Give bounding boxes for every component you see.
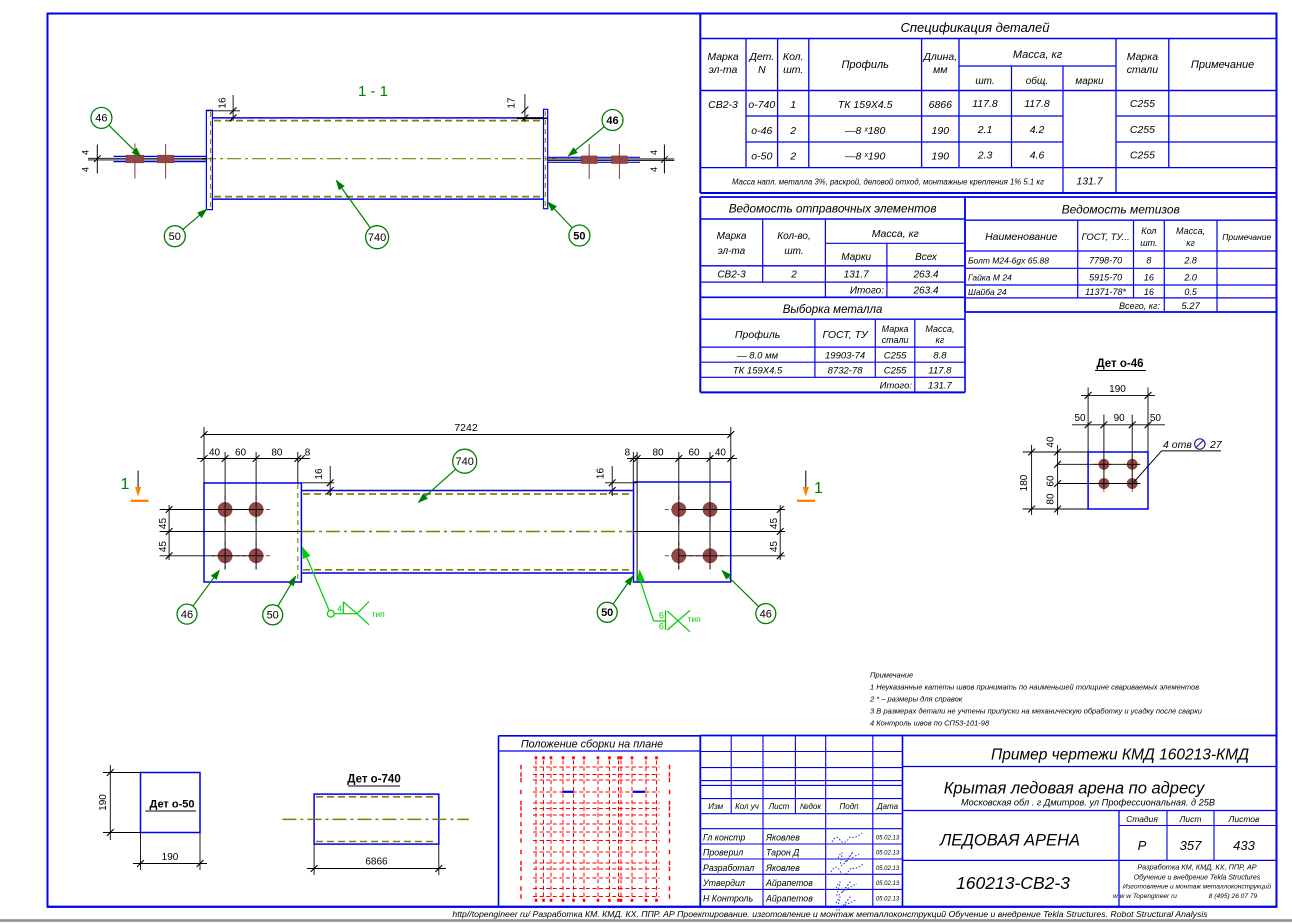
svg-text:ЛЕДОВАЯ АРЕНА: ЛЕДОВАЯ АРЕНА [939,832,1080,850]
plan: right dims 45 45 [779,505,781,560]
svg-text:Итого:: Итого: [880,381,913,392]
balloon 46 right (section) [602,110,623,131]
plan: tube outline [301,490,633,492]
svg-text:90: 90 [1114,413,1126,424]
section: left end plate o-50 [206,110,212,209]
plan: tube hidden wall lines [303,493,632,495]
svg-text:Разработка КМ, КМД, КХ, ППР, А: Разработка КМ, КМД, КХ, ППР, АР [1137,863,1256,872]
svg-text:2: 2 [790,270,797,281]
svg-text:131.7: 131.7 [928,381,952,392]
svg-text:Гл констр: Гл констр [703,833,745,843]
svg-text:Профиль: Профиль [735,329,780,341]
detail o-740 tube outline [314,794,439,844]
svg-text:117.8: 117.8 [1024,98,1050,110]
svg-text:60: 60 [688,448,700,459]
svg-text:СВ2-3: СВ2-3 [717,270,746,281]
section: centerline [202,158,556,160]
svg-text:Р: Р [1138,838,1147,853]
balloon 50 right (section) [569,225,590,246]
svg-text:1: 1 [814,480,823,497]
svg-text:Шайба 24: Шайба 24 [968,287,1007,297]
svg-text:117.8: 117.8 [972,98,998,110]
ledovaya arena cell [903,859,1277,861]
svg-text:27: 27 [1209,439,1223,451]
red grid outer dotted columns [520,765,522,769]
svg-text:40: 40 [209,448,221,459]
plan: left dims 45 45 [168,505,170,560]
detail o-50 dim 190 vertical [103,772,141,774]
svg-text:40: 40 [1045,436,1056,448]
detail o-46 dims 50 90 50 [1103,415,1105,489]
svg-text:8: 8 [624,448,630,459]
svg-text:5.27: 5.27 [1181,301,1200,312]
svg-text:стали: стали [882,335,909,345]
svg-text:2: 2 [789,151,796,163]
svg-text:160213-СВ2-3: 160213-СВ2-3 [956,873,1070,893]
svg-text:Листов: Листов [1228,814,1261,824]
svg-text:тип: тип [372,609,386,619]
plan: left sub dims 40 60 80 8 [197,458,310,460]
plan: left end plate hidden edge [297,484,299,581]
svg-text:131.7: 131.7 [1076,176,1103,188]
detail o-740 hidden wall lines [316,796,437,798]
svg-text:16: 16 [1144,287,1154,297]
svg-text:Дет о-740: Дет о-740 [347,774,400,786]
svg-text:190: 190 [98,794,109,811]
svg-text:4: 4 [337,604,342,614]
balloon 50 right (plan) [597,602,617,622]
section: left bolts (side view) [126,155,143,162]
svg-text:Всех: Всех [915,252,938,263]
svg-text:46: 46 [181,609,193,621]
svg-text:шт.: шт. [1140,238,1157,248]
section: left weld size 4 marks [96,145,98,174]
svg-text:Разработал: Разработал [703,863,754,873]
svg-text:16: 16 [218,97,229,109]
svg-text:Обучение и внедрение Tekla St: Обучение и внедрение Tekla Structures [1134,873,1261,881]
svg-text:Лист: Лист [768,802,790,811]
svg-text:общ.: общ. [1026,75,1048,87]
svg-text:Марка: Марка [717,231,747,242]
balloon 740 (section) [366,226,389,249]
svg-text:4 отв: 4 отв [1163,439,1192,451]
detail o-46 plate outline [1088,452,1148,509]
detail o-46 dims 40 60 80 [1057,445,1059,515]
section: left splice bar blue plates [114,155,207,157]
svg-text:190: 190 [932,151,950,163]
svg-text:Н Контроль: Н Контроль [703,894,753,904]
svg-text:0.5: 0.5 [1184,287,1198,297]
svg-text:50: 50 [267,610,279,622]
svg-text:6866: 6866 [365,857,388,868]
svg-text:357: 357 [1180,838,1202,853]
svg-text:Дет о-46: Дет о-46 [1096,358,1143,370]
svg-text:16: 16 [314,468,325,480]
svg-text:05.02.13: 05.02.13 [876,881,900,887]
svg-text:Масса напл. металла 3%, раскро: Масса напл. металла 3%, раскрой, деловой… [732,178,1044,187]
svg-text:1 Неуказанные катеты швов при: 1 Неуказанные катеты швов принимать по н… [870,683,1199,692]
svg-text:СВ2-3: СВ2-3 [708,99,738,111]
table: Vyborka metalla [699,297,701,392]
svg-text:2: 2 [789,125,796,137]
svg-text:263.4: 263.4 [912,270,938,281]
svg-text:45: 45 [158,541,169,553]
svg-text:45: 45 [769,541,780,553]
plan: tube centerline [301,531,634,533]
bottom gray strip [0,919,1292,922]
svg-text:2.3: 2.3 [977,150,993,162]
svg-text:Марка: Марка [707,51,739,63]
svg-text:8 (495) 26 07 79: 8 (495) 26 07 79 [1209,893,1258,900]
svg-text:Дет.: Дет. [748,51,774,63]
svg-text:3 В размерах детали не учтены: 3 В размерах детали не учтены припуски н… [870,707,1203,716]
svg-text:ГОСТ, ТУ...: ГОСТ, ТУ... [1082,232,1130,243]
svg-text:Тарон Д: Тарон Д [766,848,799,858]
svg-text:5915-70: 5915-70 [1089,273,1122,283]
svg-text:Марка: Марка [1127,51,1159,63]
svg-text:ТК 159Х4.5: ТК 159Х4.5 [838,99,893,111]
plan: right bolt grid lines [678,452,680,569]
svg-text:С255: С255 [1130,150,1155,162]
svg-text:05.02.13: 05.02.13 [876,866,900,872]
svg-text:о-740: о-740 [748,99,775,111]
section: dim 17 right plate thickness [517,117,548,119]
detail o-46 left extension lines [1023,451,1089,453]
section: dim 16 left plate thickness [206,110,240,112]
svg-text:05.02.13: 05.02.13 [876,851,900,857]
svg-text:кг: кг [1186,238,1195,248]
svg-text:4: 4 [649,150,659,155]
svg-text:190: 190 [932,125,950,137]
svg-text:—8 ˣ190: —8 ˣ190 [844,151,885,163]
svg-text:40: 40 [715,448,727,459]
title block outer lines [700,735,1276,737]
plan: right sub dims 8 80 60 40 [627,458,737,460]
detail o-46 dim 180 [1031,445,1033,515]
plan: section marker 1 right [805,471,807,493]
svg-text:05.02.13: 05.02.13 [876,836,900,842]
polozhenie sborki box [499,735,701,737]
plan: right end plate edge line [636,452,638,582]
svg-text:80: 80 [652,448,664,459]
svg-text:60: 60 [235,448,247,459]
plan: section marker 1 left [137,471,139,493]
svg-text:Наименование: Наименование [985,231,1058,243]
svg-text:ТК 159Х4.5: ТК 159Х4.5 [733,366,783,377]
svg-text:2.8: 2.8 [1183,256,1197,266]
section: right splice bar blue plates [548,156,641,158]
table: Spetsifikatsiya detaley [699,14,701,193]
svg-text:Положение сборки на плане: Положение сборки на плане [521,739,663,751]
balloon 46 left (plan) [177,604,197,624]
svg-text:С255: С255 [884,351,907,362]
svg-text:http//topengineer ru/ Разрабо: http//topengineer ru/ Разработка КМ. КМД… [452,909,1208,919]
section: tube hidden wall lines [214,120,543,122]
svg-text:Стадия: Стадия [1126,814,1158,824]
stadiya list listov header [1118,811,1120,861]
svg-text:Айрапетов: Айрапетов [765,878,813,888]
svg-text:С255: С255 [1130,98,1155,110]
object name cell [903,810,1277,812]
svg-text:Ведомость отправочных элементо: Ведомость отправочных элементов [729,202,937,216]
svg-text:Масса, кг: Масса, кг [872,228,919,240]
svg-text:16: 16 [1144,273,1154,283]
svg-text:50: 50 [169,231,181,243]
section: right splice bar black lines [548,158,675,160]
svg-text:50: 50 [573,230,585,242]
svg-text:шт.: шт. [784,246,803,257]
section: right bolts (side view) [581,156,597,163]
table: Vedomost metizov [965,196,1277,198]
svg-text:4.6: 4.6 [1030,150,1045,162]
plan: dim 16 right tube offset [605,482,637,484]
svg-text:4: 4 [649,167,659,172]
svg-text:8732-78: 8732-78 [828,366,864,377]
svg-text:кг: кг [936,335,945,345]
signatures scribbles [832,833,862,842]
svg-text:19903-74: 19903-74 [825,351,865,362]
svg-text:117.8: 117.8 [928,366,952,377]
svg-text:Кол уч: Кол уч [735,802,759,811]
weld symbol 4 tip (left) [327,610,334,617]
svg-text:50: 50 [601,607,613,619]
svg-text:2 * – размеры для справок: 2 * – размеры для справок [869,695,963,704]
plan: right flange plate o-46 [634,482,731,582]
svg-text:263.4: 263.4 [912,286,938,297]
red site grid [535,761,537,899]
svg-text:46: 46 [95,113,107,125]
svg-text:Айрапетов: Айрапетов [765,894,813,904]
svg-text:Подп: Подп [839,802,859,811]
svg-text:2.1: 2.1 [977,124,993,136]
svg-text:Масса, кг: Масса, кг [1013,49,1063,61]
balloon 46 left (section) [91,107,112,128]
svg-text:w w w Topengineer ru: w w w Topengineer ru [1113,893,1177,900]
svg-text:1: 1 [790,99,796,111]
section: right end plate o-50 [544,109,548,208]
svg-text:17: 17 [507,97,518,109]
svg-text:Яковлев: Яковлев [765,833,800,843]
svg-text:2.0: 2.0 [1183,273,1197,283]
svg-text:4 Контроль швов по СП53-101-9: 4 Контроль швов по СП53-101-98 [870,719,990,728]
svg-text:Дет о-50: Дет о-50 [149,799,194,811]
section: tube body o-740 [213,117,544,119]
svg-text:46: 46 [606,115,618,127]
balloon 46 right (plan) [756,604,776,624]
svg-text:46: 46 [760,608,772,620]
svg-text:190: 190 [1109,384,1126,395]
detail o-740 dim 6866 [313,844,315,875]
company info cell [1118,860,1120,906]
plan: overall dim 7242 [203,427,205,483]
svg-text:№док: №док [800,802,823,811]
svg-text:шт.: шт. [783,64,803,76]
svg-text:4.2: 4.2 [1030,124,1045,136]
svg-text:8: 8 [305,448,311,459]
svg-text:80: 80 [1045,493,1056,505]
svg-text:марки: марки [1075,76,1104,87]
svg-text:740: 740 [456,456,474,468]
svg-text:11371-78*: 11371-78* [1085,287,1126,297]
svg-text:Всего, кг:: Всего, кг: [1119,301,1161,311]
svg-text:о-46: о-46 [751,125,772,137]
svg-text:05.02.13: 05.02.13 [876,897,900,903]
blue segments in grid [563,791,574,793]
plan: bolts left plate [224,496,226,524]
svg-text:Болт М24-6gх 65.88: Болт М24-6gх 65.88 [968,256,1049,266]
plan: bolts right plate [678,496,680,524]
table: Vedomost otpravochnykh elementov [700,196,965,198]
detail o-46 bolts [1103,455,1105,474]
project name cell [903,766,1277,768]
svg-text:Масса,: Масса, [1176,226,1205,236]
detail o-46 dim 190 [1087,388,1089,453]
svg-text:Дата: Дата [876,802,899,811]
frame bottom edge [48,906,1277,908]
svg-text:Московская обл . г Дмитров. у: Московская обл . г Дмитров. ул Профессио… [961,798,1215,808]
svg-text:Кол.: Кол. [783,51,804,63]
svg-text:Примечание: Примечание [1191,59,1254,71]
svg-text:6: 6 [659,611,664,621]
svg-text:45: 45 [769,518,780,530]
svg-text:С255: С255 [884,366,907,377]
svg-text:Масса,: Масса, [925,324,954,334]
svg-text:50: 50 [1074,413,1086,424]
svg-text:мм: мм [933,64,947,76]
svg-text:Кол-во,: Кол-во, [777,231,811,242]
section: right weld size 4 marks [663,145,665,174]
svg-text:1: 1 [121,476,130,493]
svg-text:60: 60 [1045,475,1056,487]
svg-text:4: 4 [80,150,90,155]
svg-text:Утвердил: Утвердил [702,878,745,888]
svg-text:6866: 6866 [929,99,953,111]
weld symbol 6/6 tip (right) [654,620,667,622]
svg-text:Пример чертежи КМД 160213-КМД: Пример чертежи КМД 160213-КМД [991,747,1249,764]
svg-text:Крытая ледовая арена по адресу: Крытая ледовая арена по адресу [944,780,1206,798]
svg-text:45: 45 [158,518,169,530]
svg-text:Профиль: Профиль [841,59,889,71]
plan: left bolt grid lines [224,452,226,569]
svg-text:80: 80 [271,448,283,459]
balloon 50 left (plan) [263,605,283,625]
svg-text:Примечание: Примечание [1222,232,1271,242]
detail o-740 centerline [282,818,469,820]
svg-text:Ведомость метизов: Ведомость метизов [1062,203,1180,217]
svg-text:Марки: Марки [841,252,871,263]
svg-text:Изм: Изм [708,802,723,811]
svg-text:131.7: 131.7 [844,270,869,281]
svg-text:ГОСТ, ТУ: ГОСТ, ТУ [822,329,868,341]
balloon 740 (plan) [453,449,477,473]
svg-text:Проверил: Проверил [703,848,743,858]
svg-text:6: 6 [659,621,664,631]
svg-text:7242: 7242 [454,422,478,434]
detail o-50 dim 190 bottom [140,833,142,871]
svg-text:о-50: о-50 [751,151,772,163]
svg-text:эл-та: эл-та [709,64,738,76]
svg-text:—8 ˣ180: —8 ˣ180 [844,125,885,137]
svg-text:180: 180 [1019,474,1030,491]
svg-text:эл-та: эл-та [718,246,746,257]
svg-text:Марка: Марка [882,324,909,334]
svg-text:16: 16 [596,468,607,480]
svg-text:С255: С255 [1130,124,1155,136]
svg-text:8: 8 [1146,256,1151,266]
svg-text:тип: тип [688,614,702,624]
svg-text:Длина,: Длина, [922,51,957,63]
svg-text:7798-70: 7798-70 [1089,256,1122,266]
svg-text:Кол: Кол [1141,226,1156,236]
svg-text:Примечание: Примечание [870,671,913,680]
section: left splice bar black lines [88,157,206,159]
plan: left flange plate o-46 [204,483,301,582]
balloon 50 left (section) [164,226,185,247]
svg-text:стали: стали [1127,64,1159,76]
detail o-50 plate outline [141,773,201,833]
svg-text:Лист: Лист [1179,814,1202,824]
svg-text:433: 433 [1233,838,1255,853]
svg-text:— 8.0 мм: — 8.0 мм [736,351,778,362]
svg-text:190: 190 [162,852,179,863]
svg-text:1 - 1: 1 - 1 [358,83,388,100]
red grid top and bottom mark rows [535,756,538,759]
svg-text:Яковлев: Яковлев [765,863,800,873]
svg-text:Спецификация деталей: Спецификация деталей [901,20,1050,35]
svg-text:50: 50 [1150,413,1162,424]
svg-text:740: 740 [368,232,386,244]
svg-text:Итого:: Итого: [850,286,884,297]
svg-text:шт.: шт. [975,76,994,87]
svg-text:8.8: 8.8 [933,351,947,362]
svg-text:4: 4 [80,167,90,172]
svg-text:N: N [758,64,766,76]
plan: dim 16 left tube offset [301,482,334,484]
svg-text:Выборка металла: Выборка металла [783,304,883,316]
title block left grid rows [700,751,902,753]
title block left grid columns [730,736,732,814]
svg-text:Гайка М 24: Гайка М 24 [968,273,1012,283]
svg-text:Изготовление и монтаж металлок: Изготовление и монтаж металлоконструкций [1123,883,1272,891]
